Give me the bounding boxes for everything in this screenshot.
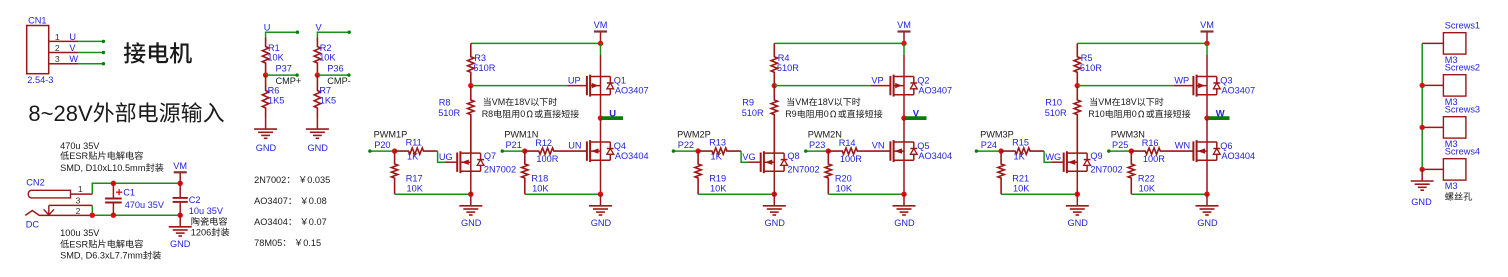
svg-text:R10: R10 xyxy=(1088,109,1105,119)
wire jog to Q8 gate net VG xyxy=(741,151,748,162)
svg-text:V: V xyxy=(316,22,323,32)
svg-text:1K: 1K xyxy=(711,152,723,162)
CN1 pin 2 lead xyxy=(49,52,78,54)
svg-text:AO3404: AO3404 xyxy=(1221,151,1255,161)
transistor Q5 AO3404 xyxy=(889,141,891,160)
svg-text:U: U xyxy=(609,107,616,118)
svg-text:GND: GND xyxy=(591,218,612,228)
resistor R14 xyxy=(826,148,831,153)
wire Q1 drain to phase node xyxy=(600,95,602,118)
svg-text:3: 3 xyxy=(76,196,81,206)
svg-text:P25: P25 xyxy=(1112,140,1128,150)
svg-text:VG: VG xyxy=(742,152,755,162)
wire CN2 pin3 drop xyxy=(91,205,93,215)
svg-text:ESR: ESR xyxy=(69,239,88,249)
svg-text:R20: R20 xyxy=(835,174,852,184)
wire R10 to Q9 drain xyxy=(1076,116,1078,154)
svg-text:Screws4: Screws4 xyxy=(1445,146,1480,156)
svg-text:R1: R1 xyxy=(268,43,280,53)
C1 plus sign xyxy=(116,189,122,195)
svg-text:R14: R14 xyxy=(839,138,856,148)
svg-text:510R: 510R xyxy=(777,63,799,73)
svg-text:R15: R15 xyxy=(1012,138,1029,148)
net port W bar xyxy=(1209,116,1230,120)
svg-text:VM: VM xyxy=(1200,20,1214,30)
svg-text:PWM3N: PWM3N xyxy=(1111,130,1145,140)
svg-text:R5: R5 xyxy=(1081,53,1093,63)
resistor R6 xyxy=(262,75,268,117)
svg-text:Q1: Q1 xyxy=(614,75,626,85)
net stub P21 xyxy=(502,150,525,152)
svg-text:PWM1P: PWM1P xyxy=(374,130,408,140)
svg-text:100u 35V: 100u 35V xyxy=(60,228,100,238)
wire screws ground bus xyxy=(1421,43,1423,169)
svg-text:SMD, D10xL10.5mm: SMD, D10xL10.5mm xyxy=(60,163,146,173)
svg-text:WN: WN xyxy=(1175,141,1190,151)
svg-text:GND: GND xyxy=(170,239,191,249)
wire bottom ground rail xyxy=(92,214,180,216)
svg-text:WP: WP xyxy=(1174,76,1189,86)
svg-text:AO3407: AO3407 xyxy=(918,86,952,96)
svg-text:R7: R7 xyxy=(319,86,331,96)
wire jog to Q7 gate net UG xyxy=(438,151,445,162)
svg-text:2N7002: 2N7002 xyxy=(1090,165,1122,175)
resistor R4 xyxy=(771,43,777,85)
svg-text:1K5: 1K5 xyxy=(268,96,284,106)
svg-text:R16: R16 xyxy=(1142,138,1159,148)
svg-text:AO3407: AO3407 xyxy=(615,86,649,96)
svg-text:10u 35V: 10u 35V xyxy=(189,206,224,216)
wire VM to Q1 source xyxy=(600,43,602,55)
ground below R7 xyxy=(316,118,318,130)
svg-text:AO3407: AO3407 xyxy=(1221,86,1255,96)
svg-text:R3: R3 xyxy=(474,53,486,63)
svg-text:UG: UG xyxy=(439,152,453,162)
wire phase node to Q4 drain xyxy=(600,118,602,142)
svg-text:W: W xyxy=(1216,107,1225,118)
svg-text:2: 2 xyxy=(55,43,60,53)
wire VM to Q3 source xyxy=(1206,43,1208,55)
wire net W from CN1 xyxy=(78,63,103,65)
svg-text:AO3404: AO3404 xyxy=(615,151,649,161)
svg-text:CMP-: CMP- xyxy=(327,76,350,86)
wire net V from CN1 xyxy=(78,52,103,54)
wire Q7 source down xyxy=(470,171,472,194)
wire Q4 source down xyxy=(600,160,602,194)
wire R22 to Q6 source xyxy=(1131,193,1207,195)
svg-text:R2: R2 xyxy=(320,43,332,53)
resistor R16 xyxy=(1129,148,1134,153)
svg-text:Screws1: Screws1 xyxy=(1445,20,1480,30)
svg-text:PWM3P: PWM3P xyxy=(980,130,1014,140)
svg-text:DC: DC xyxy=(26,220,40,230)
svg-text:UN: UN xyxy=(568,141,581,151)
net stub P24 xyxy=(976,150,1001,152)
wire R9 to Q8 drain xyxy=(773,116,775,154)
CN2 pin 2 lead and center pin symbol xyxy=(25,211,92,216)
svg-text:C1: C1 xyxy=(123,187,135,197)
svg-text:0: 0 xyxy=(520,109,525,119)
svg-text:GND: GND xyxy=(764,218,785,228)
wire Q5 source down xyxy=(903,160,905,194)
svg-text:10K: 10K xyxy=(319,53,336,63)
svg-text:GND: GND xyxy=(1197,218,1218,228)
ground below Q5 xyxy=(903,194,905,206)
wire VM rail block U xyxy=(471,42,601,44)
svg-text:R9: R9 xyxy=(742,98,754,108)
svg-text:2N7002: 2N7002 xyxy=(254,175,286,185)
svg-text:AO3404: AO3404 xyxy=(918,151,952,161)
svg-text:Q7: Q7 xyxy=(484,151,496,161)
svg-text:SMD, D6.3xL7.7mm: SMD, D6.3xL7.7mm xyxy=(60,251,143,261)
svg-text:100R: 100R xyxy=(1143,154,1165,164)
svg-text:GND: GND xyxy=(894,218,915,228)
svg-text:2N7002: 2N7002 xyxy=(484,165,516,175)
wire R18 to Q4 source xyxy=(525,193,601,195)
svg-text:Q2: Q2 xyxy=(917,75,929,85)
power flag VM block W xyxy=(1206,32,1208,44)
svg-text:1K5: 1K5 xyxy=(320,96,336,106)
transistor Q7 2N7002 xyxy=(456,153,458,172)
net stub P23 xyxy=(806,150,829,152)
svg-text:R8: R8 xyxy=(482,109,494,119)
svg-text:PWM2P: PWM2P xyxy=(677,130,711,140)
ground below Q7 xyxy=(470,194,472,206)
svg-text:V: V xyxy=(69,43,76,53)
svg-text:CN1: CN1 xyxy=(28,15,46,25)
svg-text:AO3407: AO3407 xyxy=(254,196,288,206)
svg-text:Q5: Q5 xyxy=(917,141,929,151)
transistor Q6 AO3404 xyxy=(1192,141,1194,160)
svg-text:R18: R18 xyxy=(531,174,548,184)
svg-text:ESR: ESR xyxy=(69,151,88,161)
svg-text:R4: R4 xyxy=(778,53,790,63)
svg-text:1K: 1K xyxy=(1014,152,1026,162)
svg-text:P20: P20 xyxy=(374,140,390,150)
svg-text:10K: 10K xyxy=(532,183,549,193)
svg-text:100R: 100R xyxy=(536,154,558,164)
svg-text:PWM2N: PWM2N xyxy=(808,130,842,140)
wire phase node to Q6 drain xyxy=(1206,118,1208,142)
svg-text:10K: 10K xyxy=(407,183,424,193)
screw hole Screws2 xyxy=(1422,84,1443,86)
svg-text:0.08: 0.08 xyxy=(309,196,327,206)
svg-text:10K: 10K xyxy=(1139,183,1156,193)
svg-text:GND: GND xyxy=(307,143,328,153)
svg-text:470u 35V: 470u 35V xyxy=(60,141,100,151)
svg-text:WG: WG xyxy=(1045,152,1061,162)
svg-text:GND: GND xyxy=(1411,197,1432,207)
resistor R21 xyxy=(998,151,1004,194)
node VP junction xyxy=(772,83,777,88)
svg-text:R8: R8 xyxy=(439,98,451,108)
svg-text:GND: GND xyxy=(461,218,482,228)
svg-text:0.035: 0.035 xyxy=(307,175,330,185)
power flag VM block V xyxy=(903,32,905,44)
transistor Q8 2N7002 xyxy=(760,153,762,172)
svg-text:VM: VM xyxy=(897,20,911,30)
junction dots power input xyxy=(111,181,116,186)
wire gate Q3 row xyxy=(1077,85,1174,87)
resistor R18 xyxy=(522,151,528,194)
wire P37 stub xyxy=(266,74,298,76)
capacitor C1 xyxy=(112,183,114,197)
wire Q2 drain to phase node xyxy=(903,95,905,118)
svg-text:VP: VP xyxy=(871,76,883,86)
svg-text:18V: 18V xyxy=(818,97,834,107)
wire R19 to Q8 source xyxy=(698,193,774,195)
wire R8 to Q7 drain xyxy=(470,116,472,154)
CN1 pin 3 lead xyxy=(49,63,78,65)
svg-text:1: 1 xyxy=(78,184,83,194)
resistor R3 xyxy=(468,43,474,85)
resistor R5 xyxy=(1074,43,1080,85)
svg-text:M3: M3 xyxy=(1445,181,1458,191)
note VM 18V block U line1 xyxy=(484,98,491,106)
ground below Q9 xyxy=(1076,194,1078,206)
svg-text:1K: 1K xyxy=(407,152,419,162)
svg-text:GND: GND xyxy=(256,143,277,153)
svg-text:Q4: Q4 xyxy=(614,141,626,151)
svg-text:VM: VM xyxy=(173,161,187,171)
svg-text:Q8: Q8 xyxy=(787,151,799,161)
resistor R22 xyxy=(1128,151,1134,194)
wire VM rail block V xyxy=(774,42,904,44)
CN2 pin 3 lead xyxy=(49,204,93,206)
CN2 pin 1 lead xyxy=(71,193,93,195)
svg-text:R19: R19 xyxy=(709,174,726,184)
wire Q6 source down xyxy=(1206,160,1208,194)
resistor R10 xyxy=(1074,86,1080,154)
svg-text:VM: VM xyxy=(594,20,608,30)
svg-text:10K: 10K xyxy=(1013,183,1030,193)
svg-text:18V: 18V xyxy=(1121,97,1137,107)
svg-text:VM: VM xyxy=(1098,97,1112,107)
svg-text:Q3: Q3 xyxy=(1220,75,1232,85)
svg-text:U: U xyxy=(264,22,271,32)
ground screws xyxy=(1421,169,1423,181)
wire gate Q1 row xyxy=(471,85,568,87)
svg-text:AO3404: AO3404 xyxy=(254,217,288,227)
svg-text:R22: R22 xyxy=(1138,174,1155,184)
svg-text:10K: 10K xyxy=(710,183,727,193)
wire phase node to Q5 drain xyxy=(903,118,905,142)
capacitor C2 xyxy=(179,183,181,197)
wire gate Q2 row xyxy=(774,85,871,87)
svg-text:0.15: 0.15 xyxy=(303,238,321,248)
svg-text:18V: 18V xyxy=(514,97,530,107)
ground below Q8 xyxy=(773,194,775,206)
resistor R15 xyxy=(998,148,1003,153)
svg-text:510R: 510R xyxy=(742,108,764,118)
svg-text:VM: VM xyxy=(795,97,809,107)
CN2 switch lever with arrow xyxy=(44,205,54,215)
svg-text:P36: P36 xyxy=(327,63,343,73)
wire Q9 source down xyxy=(1076,171,1078,194)
svg-text:1: 1 xyxy=(55,32,60,42)
resistor R13 xyxy=(695,148,700,153)
svg-text:1206: 1206 xyxy=(191,228,211,238)
svg-text:3: 3 xyxy=(55,54,60,64)
svg-text:Screws2: Screws2 xyxy=(1445,62,1480,72)
screw hole Screws4 xyxy=(1422,168,1443,170)
wire Q8 source down xyxy=(773,171,775,194)
svg-text:510R: 510R xyxy=(438,108,460,118)
svg-text:R9: R9 xyxy=(785,109,797,119)
svg-text:P22: P22 xyxy=(678,140,694,150)
transistor Q4 AO3404 xyxy=(586,141,588,160)
net stub P20 xyxy=(370,150,395,152)
CN1 pin 1 lead xyxy=(49,40,78,42)
note VM 18V block W line1 xyxy=(1090,98,1097,106)
svg-text:0.07: 0.07 xyxy=(309,217,327,227)
resistor R20 xyxy=(825,151,831,194)
wire VM to Q2 source xyxy=(903,43,905,55)
wire Q3 drain to phase node xyxy=(1206,95,1208,118)
screw hole Screws3 xyxy=(1422,126,1443,128)
svg-text:2N7002: 2N7002 xyxy=(787,165,819,175)
node P37 junction xyxy=(263,72,268,77)
svg-text:0: 0 xyxy=(1132,109,1137,119)
svg-text:U: U xyxy=(69,32,76,42)
resistor R7 xyxy=(314,75,320,117)
resistor R9 xyxy=(771,86,777,154)
connector CN1 body xyxy=(27,26,49,74)
transistor Q9 2N7002 xyxy=(1063,153,1065,172)
svg-text:R12: R12 xyxy=(535,138,552,148)
svg-text:8~28V: 8~28V xyxy=(28,101,93,126)
svg-text:470u 35V: 470u 35V xyxy=(125,200,165,210)
resistor R17 xyxy=(391,151,397,194)
transistor Q1 AO3407 xyxy=(586,76,588,95)
svg-text:W: W xyxy=(69,54,78,64)
svg-text:510R: 510R xyxy=(473,63,495,73)
transistor Q2 AO3407 xyxy=(889,76,891,95)
svg-text:V: V xyxy=(913,107,920,118)
svg-text:CMP+: CMP+ xyxy=(276,76,302,86)
ground at power input xyxy=(179,215,181,227)
wire jog to Q9 gate net WG xyxy=(1044,151,1051,162)
power flag VM block U xyxy=(600,32,602,44)
connector CN2 barrel xyxy=(28,190,70,198)
svg-text:R21: R21 xyxy=(1012,174,1029,184)
svg-text:GND: GND xyxy=(1067,218,1088,228)
wire U stub xyxy=(266,32,298,37)
net port U bar xyxy=(602,116,623,120)
wire CN2 pin1 to VM rail xyxy=(92,183,180,194)
svg-text:100R: 100R xyxy=(840,154,862,164)
net port V bar xyxy=(906,116,927,120)
resistor R19 xyxy=(695,151,701,194)
wire V stub xyxy=(317,32,349,37)
svg-text:Screws3: Screws3 xyxy=(1445,104,1480,114)
svg-text:78M05: 78M05 xyxy=(254,238,282,248)
net stub P25 xyxy=(1109,150,1132,152)
svg-text:Q6: Q6 xyxy=(1220,141,1232,151)
svg-text:Q9: Q9 xyxy=(1090,151,1102,161)
svg-text:R6: R6 xyxy=(268,86,280,96)
svg-text:VN: VN xyxy=(872,141,885,151)
power flag VM at input xyxy=(179,172,181,183)
svg-text:0: 0 xyxy=(824,109,829,119)
node UP junction xyxy=(468,83,473,88)
net stub P22 xyxy=(673,150,698,152)
svg-text:510R: 510R xyxy=(1045,108,1067,118)
svg-text:R10: R10 xyxy=(1045,98,1062,108)
svg-text:2: 2 xyxy=(76,206,81,216)
wire P36 stub xyxy=(317,74,349,76)
wire VM rail block W xyxy=(1077,42,1207,44)
wire R17 to Q7 source xyxy=(395,193,471,195)
svg-text:10K: 10K xyxy=(836,183,853,193)
label 螺丝孔 xyxy=(1445,192,1453,200)
node P36 junction xyxy=(315,72,320,77)
svg-text:PWM1N: PWM1N xyxy=(504,130,538,140)
ground below R6 xyxy=(265,118,267,130)
wire R21 to Q9 source xyxy=(1001,193,1077,195)
svg-text:P24: P24 xyxy=(981,140,997,150)
resistor R2 xyxy=(314,38,320,76)
resistor R12 xyxy=(522,148,527,153)
wire R20 to Q5 source xyxy=(828,193,904,195)
svg-text:C2: C2 xyxy=(189,195,201,205)
svg-text:P23: P23 xyxy=(809,140,825,150)
resistor R1 xyxy=(262,38,268,76)
svg-text:CN2: CN2 xyxy=(26,178,44,188)
transistor Q3 AO3407 xyxy=(1192,76,1194,95)
svg-text:R13: R13 xyxy=(709,138,726,148)
resistor R8 xyxy=(468,86,474,154)
ground below Q6 xyxy=(1206,194,1208,206)
svg-text:R11: R11 xyxy=(406,138,422,148)
node WP junction xyxy=(1075,83,1080,88)
resistor R11 xyxy=(392,148,397,153)
svg-text:10K: 10K xyxy=(267,53,284,63)
ground below Q4 xyxy=(600,194,602,206)
svg-text:VM: VM xyxy=(492,97,506,107)
svg-text:R17: R17 xyxy=(406,174,423,184)
svg-text:UP: UP xyxy=(568,76,581,86)
annotation text 接电机 xyxy=(124,42,146,63)
note VM 18V block V line1 xyxy=(787,98,794,106)
screw hole Screws1 xyxy=(1422,42,1443,44)
wire net U from CN1 xyxy=(78,40,103,42)
svg-text:510R: 510R xyxy=(1080,63,1102,73)
svg-text:2.54-3: 2.54-3 xyxy=(27,75,53,85)
svg-text:P37: P37 xyxy=(276,63,292,73)
svg-text:P21: P21 xyxy=(506,140,522,150)
